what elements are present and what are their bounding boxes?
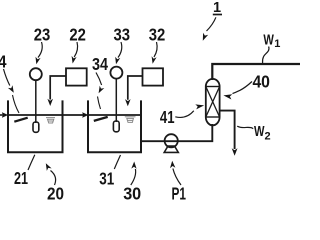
electrode 34 probe in tank 30 [94,117,108,121]
leader 41 [175,111,194,118]
leader P1 [173,169,181,186]
box 32 dosing line into tank 30 [128,76,143,100]
pump P1 circle [165,134,178,147]
leader 34 [96,73,102,86]
svg-text:21: 21 [14,168,28,188]
stirrer shaft tank 30 [115,79,117,122]
leader W2 [237,126,253,128]
svg-text:31: 31 [99,169,114,189]
stirrer paddle tank 30 [113,121,119,132]
svg-text:W: W [254,123,265,140]
wire W2 branch pipe [220,111,235,149]
leader 20 [51,171,56,186]
W2 outlet arrowhead [232,148,238,156]
svg-text:P1: P1 [171,183,186,200]
tank 30 liquid level line [88,114,141,116]
stirrer shaft tank 20 [35,80,37,123]
transfer arrow tank 20 to tank 30 [63,114,84,116]
svg-text:30: 30 [123,183,141,200]
stirrer paddle tank 20 [33,122,39,132]
svg-text:33: 33 [114,24,131,44]
column 40 packing X diagonal 1 [206,87,220,118]
leader 23 [38,42,42,58]
leader 21 [28,155,35,170]
wire W1 inlet pipe top right [212,64,300,80]
svg-text:20: 20 [47,183,64,200]
leader 22 [74,42,77,57]
electrode 34 cable [98,97,101,110]
column 40 top seam [206,86,220,88]
svg-text:40: 40 [252,71,270,91]
leader 31 [114,155,120,169]
svg-text:4: 4 [0,52,7,72]
motor M23 circle [30,68,42,80]
electrode 4 cable [13,95,20,113]
pump P1 base [164,146,178,152]
level sensor symbol tank 20 [46,118,55,123]
svg-text:23: 23 [34,24,51,44]
svg-text:34: 34 [92,54,108,74]
controller box 32 [143,68,164,85]
svg-text:32: 32 [149,24,166,44]
motor M33 circle [110,67,122,79]
raw water inlet arrow into tank 20 [0,114,3,116]
controller box 22 [66,68,87,85]
leader 32 [154,42,157,57]
box 22 dosing line into tank 20 [50,76,66,100]
svg-text:1: 1 [274,38,280,50]
leader 1 [207,17,216,31]
column 40 vessel capsule [206,79,220,125]
leader 4 [4,69,10,86]
column 40 bottom seam [206,116,220,118]
svg-text:22: 22 [69,24,86,44]
tank 30 vessel walls [88,100,141,152]
tank 20 vessel walls [8,100,63,152]
label 1 underline [213,14,222,16]
leader 30 [131,169,136,185]
column 40 packing X diagonal 2 [206,87,220,118]
wire column outlet to pump pipe [141,124,212,141]
svg-text:2: 2 [265,130,271,142]
leader 40 [233,82,253,94]
svg-text:41: 41 [160,107,175,127]
svg-text:W: W [263,31,274,48]
leader W1 [262,47,269,64]
leader 33 [118,42,122,58]
tank 20 liquid level line [8,114,63,116]
level sensor symbol tank 30 [125,117,136,123]
electrode 4 probe in tank 20 [14,118,27,122]
svg-text:1: 1 [213,0,221,16]
